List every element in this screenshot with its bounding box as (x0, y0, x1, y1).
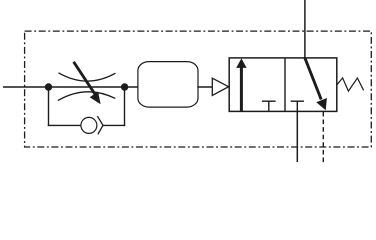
enclosure (dash-dot assembly boundary) (25, 31, 372, 147)
accumulator / receiver vessel (138, 62, 198, 108)
check valve seat (chevron) (97, 116, 103, 134)
wire: bypass right vertical (124, 87, 126, 126)
right box flow path: diagonal arrow to exhaust (305, 58, 327, 110)
wire: bottom port line (solid, blocked port) (296, 111, 298, 162)
throttle (variable restrictor) upper arc (59, 73, 116, 81)
wire: bypass left vertical (48, 87, 50, 126)
wire: exhaust line (dashed) below valve (322, 112, 324, 163)
3/2 directional valve: body outline (two position boxes) (229, 58, 337, 112)
wire: bypass bottom left segment (48, 124, 81, 126)
check valve ball (circle) (81, 117, 97, 133)
wire: pilot line from top edge down to valve (304, 0, 306, 58)
left box blocked port symbol (tee) (262, 101, 276, 111)
pilot triangle (flow source symbol) (212, 78, 228, 95)
wire: main inlet line (left edge to flow-control and accumulator) (3, 86, 138, 88)
wire: bypass bottom right segment (103, 124, 126, 126)
wire: accumulator outlet to pilot triangle (197, 86, 212, 88)
left box flow path: upward arrow (236, 58, 246, 111)
return spring (zigzag) on valve right side (337, 78, 364, 91)
junction node: left tee of bypass (45, 83, 52, 90)
throttle adjustment arrow (diagonal, filled head) (74, 62, 101, 104)
throttle (variable restrictor) lower arc (58, 92, 116, 101)
right box blocked port symbol (tee) (291, 101, 304, 111)
junction node: right tee of bypass (121, 83, 128, 90)
3/2 directional valve: position divider line (284, 58, 286, 112)
